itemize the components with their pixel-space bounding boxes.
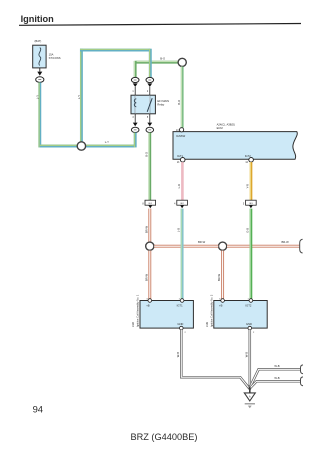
svg-text:L-R: L-R (177, 184, 181, 188)
svg-text:Ignition Coil Assembly No. 1: Ignition Coil Assembly No. 1 (136, 294, 140, 327)
svg-text:+B: +B (219, 303, 223, 307)
ECM pin IGT2 (245, 158, 253, 165)
svg-text:G-B: G-B (246, 228, 250, 233)
coil2 pin GND (248, 326, 255, 333)
svg-text:Ignition: Ignition (21, 14, 55, 24)
wire BR-W junction2 to coil1 +B (148, 251, 151, 300)
coil1 pin +B (146, 298, 151, 302)
junction J2 (146, 242, 154, 250)
ground symbol (244, 393, 255, 408)
wire BR-W junction3 to coil2 +B (221, 251, 224, 300)
wire L-Y horizontal lower (40, 144, 135, 148)
arrow pin3 (133, 123, 138, 127)
svg-text:Ignition Coil Assembly No. 2: Ignition Coil Assembly No. 2 (209, 294, 213, 327)
svg-text:94: 94 (33, 403, 43, 414)
wire L-Y drop to relay pin 2 (148, 49, 152, 78)
svg-text:ST/CONS: ST/CONS (49, 56, 61, 60)
ECM box (173, 123, 297, 160)
svg-text:W-B: W-B (274, 376, 279, 380)
relay bottom connector oval 2 (146, 127, 154, 132)
relay top connector oval 2 (146, 77, 154, 82)
wire B-O ring to ECM (180, 67, 183, 128)
pin lead 1 (134, 87, 136, 95)
bus continuation mark (300, 239, 303, 253)
ignition coil assembly no.2 box (214, 301, 267, 329)
continuation mark lower (300, 377, 303, 386)
coil1 pin IGT1 (179, 298, 184, 302)
relay bottom connector oval 1 (131, 127, 139, 132)
relay lower lead 1 (134, 114, 136, 123)
wire W-B from right lower (250, 381, 300, 388)
wire BR-W bus segment 1 (154, 245, 218, 248)
wire L-Y fuse vertical (38, 82, 42, 147)
svg-text:BR-W: BR-W (198, 240, 206, 244)
svg-text:Relay: Relay (157, 102, 165, 106)
svg-text:A24(C), A38(D): A24(C), A38(D) (217, 123, 235, 127)
relay lower lead 2 (149, 114, 151, 123)
svg-text:IGNSW: IGNSW (176, 134, 186, 138)
arrow pin1 (133, 83, 138, 87)
svg-text:C39: C39 (205, 322, 209, 327)
inline connector IE2 (174, 200, 187, 208)
wire L-Y relay bottom-left stub (133, 133, 137, 148)
wire L teal connector2 to coil1 (180, 209, 184, 300)
wire P ECM IGT1 down (181, 162, 184, 200)
fuse lead (39, 68, 41, 72)
connector oval below fuse (36, 77, 44, 83)
ring junction node (178, 58, 186, 66)
ECM pin IGT1 (177, 158, 185, 165)
wire L-Y up branch (79, 49, 83, 142)
title Ignition (19, 14, 301, 25)
svg-text:IGT1: IGT1 (177, 303, 183, 307)
svg-text:BR-W: BR-W (217, 274, 221, 282)
wire B-O relay to ring horizontal (135, 61, 178, 78)
inline connector IE1 (142, 200, 155, 208)
svg-text:GND: GND (246, 322, 252, 326)
svg-text:W-B: W-B (245, 352, 249, 357)
svg-text:W-B: W-B (274, 364, 279, 368)
svg-text:L-Y: L-Y (77, 95, 81, 99)
svg-text:+B: +B (146, 303, 150, 307)
fuse ST/CONS 15A (33, 45, 61, 68)
svg-text:15A: 15A (49, 53, 54, 57)
continuation mark upper (300, 365, 303, 374)
svg-text:GND: GND (177, 322, 183, 326)
junction J3 (219, 242, 227, 250)
wire L-Y top horizontal (80, 48, 150, 52)
svg-text:BRZ (G4400BE): BRZ (G4400BE) (131, 432, 198, 442)
svg-text:W-B: W-B (176, 352, 180, 357)
svg-text:EFI MAIN: EFI MAIN (157, 99, 169, 103)
svg-text:Y-R: Y-R (246, 184, 250, 188)
svg-text:BR-W: BR-W (282, 240, 290, 244)
svg-text:(BAT): (BAT) (35, 39, 42, 43)
arrow pin2 (147, 83, 152, 87)
relay EFI MAIN (131, 95, 169, 114)
wire W-B coil1 ground (181, 330, 249, 389)
svg-text:BR-W: BR-W (144, 226, 148, 234)
wire B-O relay pin5 down (148, 133, 151, 201)
coil2 pin IGT2 (247, 298, 252, 302)
svg-text:B-O: B-O (144, 152, 148, 157)
arrow into connector below fuse (37, 72, 42, 76)
svg-text:BR-W: BR-W (144, 274, 148, 282)
svg-text:L-B: L-B (177, 228, 181, 232)
wire W-B from right upper (250, 369, 300, 387)
coil2 pin +B (219, 298, 224, 302)
svg-text:B-O: B-O (177, 100, 181, 105)
svg-text:ECM: ECM (217, 126, 224, 130)
wire W-B coil2 ground (249, 330, 252, 390)
svg-text:B-O: B-O (160, 57, 165, 61)
wire Y ECM IGT2 down (249, 162, 253, 200)
wire G connector3 to coil2 (249, 209, 252, 300)
wire BR-W bus segment 2 (227, 245, 300, 248)
relay top connector oval 1 (131, 77, 139, 82)
wire BR-W connector to junction (148, 209, 151, 242)
pin lead 2 (149, 87, 151, 95)
svg-text:IGT2: IGT2 (245, 303, 251, 307)
svg-text:C38: C38 (131, 322, 135, 327)
ignition coil assembly no.1 box (140, 301, 193, 329)
coil1 pin GND (180, 326, 187, 333)
svg-text:L-Y: L-Y (105, 140, 109, 144)
junction J1 (77, 142, 85, 150)
svg-text:L-Y: L-Y (36, 95, 40, 99)
ground lead (249, 387, 251, 393)
inline connector IE3 (243, 200, 256, 208)
ECM pin IGNSW (176, 128, 184, 132)
arrow pin5 (147, 123, 152, 127)
